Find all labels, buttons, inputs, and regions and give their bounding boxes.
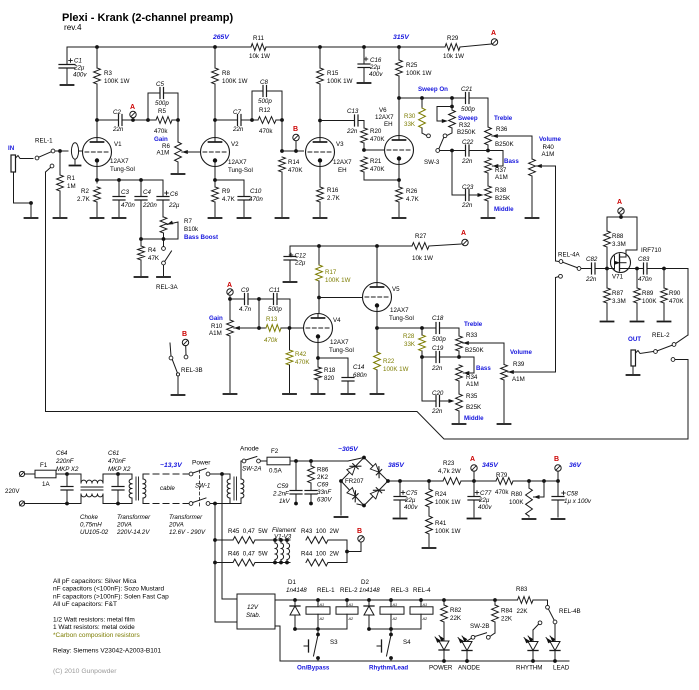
capacitor C22 22n [461, 139, 474, 165]
resistor R25 100K 1W [396, 47, 432, 136]
svg-text:V3: V3 [336, 141, 344, 148]
resistor R30 33K carbon [404, 98, 430, 138]
ground input jack [25, 217, 38, 219]
wire V4 cathode [316, 343, 348, 368]
svg-text:500p: 500p [268, 306, 282, 313]
svg-text:POWER: POWER [429, 665, 453, 672]
svg-text:100K: 100K [509, 499, 524, 506]
svg-text:22n: 22n [112, 126, 124, 133]
svg-text:0,75mH: 0,75mH [80, 522, 102, 529]
resistor R29 10k 1W [443, 35, 464, 60]
svg-text:R32: R32 [459, 122, 471, 129]
svg-text:3.3M: 3.3M [612, 241, 626, 248]
svg-text:22µ: 22µ [478, 497, 490, 504]
svg-text:680n: 680n [353, 372, 367, 379]
capacitor C61 470nF MKP X2 [108, 450, 131, 505]
wire output to REL-2 [664, 269, 688, 344]
mains choke [67, 474, 132, 536]
svg-text:220nF: 220nF [55, 458, 75, 465]
ground R39 [498, 423, 511, 425]
resistor R90 470K [661, 267, 685, 320]
svg-text:Middle: Middle [464, 415, 484, 422]
svg-text:10k 1W: 10k 1W [443, 53, 464, 60]
ground R4 [135, 276, 148, 278]
wire R8 to V2 plate [213, 84, 217, 141]
ground R90 [658, 321, 671, 323]
input cable shield [70, 143, 81, 166]
svg-text:V4: V4 [333, 317, 341, 324]
svg-text:470k: 470k [259, 128, 273, 135]
svg-text:C61: C61 [108, 450, 119, 457]
ground R2 [91, 217, 104, 219]
triode V3 [306, 138, 353, 175]
node A at end of rail [460, 30, 498, 47]
svg-text:470k: 470k [495, 489, 509, 496]
svg-text:R39: R39 [513, 361, 525, 368]
svg-text:C23: C23 [462, 184, 474, 191]
svg-text:22n: 22n [232, 126, 244, 133]
svg-text:R7: R7 [184, 218, 192, 225]
resistor R87 3.3M [604, 269, 626, 321]
svg-text:C5: C5 [156, 81, 164, 88]
ground REL-3B [172, 394, 185, 396]
svg-text:12AX7: 12AX7 [333, 159, 352, 166]
svg-text:R29: R29 [447, 35, 459, 42]
svg-text:IRF710: IRF710 [641, 247, 662, 254]
ground R22 [371, 393, 384, 395]
svg-text:470n: 470n [638, 276, 652, 283]
resistor R23 4.7k 2W [438, 460, 474, 484]
svg-text:R43 100 2W: R43 100 2W [301, 528, 339, 535]
cable dashed wires [143, 462, 191, 504]
svg-text:REL-4: REL-4 [413, 587, 431, 594]
svg-text:R38: R38 [495, 187, 507, 194]
potentiometer R32 B250K sweep [437, 98, 478, 138]
ground R26 [393, 217, 406, 219]
potentiometer R80 100K [509, 481, 544, 517]
svg-text:0.5A: 0.5A [269, 468, 283, 475]
diode D1 1n4148 [286, 579, 307, 629]
resistor R14 470K [279, 157, 304, 217]
wire V4 plate to V5 grid [319, 297, 363, 299]
switch SW-2B [467, 623, 490, 641]
svg-text:400v: 400v [73, 72, 87, 79]
ground R80 [523, 518, 536, 520]
svg-text:~305V: ~305V [338, 446, 359, 453]
svg-text:C9: C9 [241, 287, 249, 294]
relay switch REL-4B [538, 600, 581, 625]
svg-text:33nF: 33nF [317, 489, 332, 496]
svg-text:R2: R2 [81, 188, 89, 195]
svg-text:12AX7: 12AX7 [110, 158, 129, 165]
svg-text:C77: C77 [480, 490, 492, 497]
svg-text:1n4148: 1n4148 [286, 587, 307, 594]
svg-text:Sweep: Sweep [458, 115, 478, 122]
svg-text:A2: A2 [392, 617, 399, 621]
wire B+ rail 265V segment [67, 46, 445, 48]
wire DC+ rail 385V [388, 462, 443, 483]
svg-text:C19: C19 [432, 345, 444, 352]
relay coil REL-2 [336, 587, 358, 629]
svg-text:100K 1W: 100K 1W [104, 78, 130, 85]
svg-text:R41: R41 [435, 520, 447, 527]
wire REL-2 bypass contact [671, 358, 688, 439]
svg-text:4.7K: 4.7K [222, 196, 236, 203]
relay switch REL-2 [652, 332, 676, 353]
wire volume select vertical [556, 166, 560, 262]
LED LEAD [546, 624, 570, 672]
resistor R16 2.7K [317, 187, 341, 217]
wire relay group 2 return [367, 627, 421, 631]
svg-text:R1: R1 [67, 175, 75, 182]
node A ch2 rail [461, 230, 468, 246]
svg-text:C3: C3 [121, 189, 129, 196]
svg-text:SW-1: SW-1 [195, 483, 210, 490]
ground R6 [172, 173, 185, 175]
svg-text:R3: R3 [104, 70, 112, 77]
svg-text:12AX7: 12AX7 [390, 307, 409, 314]
resistor R4 47K [138, 239, 160, 276]
resistor R88 3.3M [604, 217, 626, 269]
svg-text:R89: R89 [642, 290, 654, 297]
svg-text:4,7k 2W: 4,7k 2W [438, 468, 461, 475]
svg-text:R28: R28 [403, 333, 415, 340]
svg-text:100K 1W: 100K 1W [435, 528, 461, 535]
svg-text:R34: R34 [466, 374, 478, 381]
svg-text:REL-3A: REL-3A [156, 284, 179, 291]
capacitor C77 22u 400v [468, 481, 492, 517]
wire R15 to V3 plate [318, 84, 322, 141]
node B REL-3B [182, 331, 189, 359]
wire x422 down to C20 row [421, 357, 423, 401]
resistor R86 2K2 snubber [308, 459, 329, 483]
wire C9 junction down [257, 299, 261, 330]
capacitor C11 500p [259, 287, 290, 328]
ground R1 [54, 217, 67, 219]
ground R42 [283, 393, 296, 395]
svg-text:220V-14.2V: 220V-14.2V [116, 529, 150, 536]
switch S3 channel [304, 629, 338, 661]
wire ch2 B+ rail [290, 244, 412, 248]
svg-text:47K: 47K [148, 255, 160, 262]
svg-text:Volume: Volume [539, 136, 561, 143]
relay switch REL-3B [169, 343, 203, 394]
resistor R82 22K [441, 600, 462, 640]
wire sweep rail [399, 96, 488, 100]
svg-text:V6: V6 [379, 107, 387, 114]
svg-text:V1: V1 [114, 141, 122, 148]
svg-text:R21: R21 [370, 158, 382, 165]
svg-text:Bass Boost: Bass Boost [184, 234, 218, 241]
svg-text:nF capacitors (<100nF): Sozo M: nF capacitors (<100nF): Sozo Mustard [53, 586, 164, 593]
triode V5 [363, 283, 414, 323]
svg-text:*Carbon composition resistors: *Carbon composition resistors [53, 632, 140, 639]
svg-text:EH: EH [384, 121, 393, 128]
svg-text:EH: EH [338, 167, 347, 174]
resistor R3 100K 1W [94, 47, 130, 85]
resistor R28 33K carbon [403, 328, 425, 357]
svg-text:R5: R5 [158, 108, 166, 115]
svg-text:R33: R33 [466, 332, 478, 339]
ground C10 [238, 217, 251, 219]
svg-text:C4: C4 [143, 189, 151, 196]
node A 345V [470, 456, 499, 483]
resistor R89 100K [634, 269, 658, 321]
potentiometer R36 B250K treble ch1 [485, 115, 532, 159]
svg-text:400v: 400v [478, 504, 492, 511]
wire ch2 tone rail [377, 326, 436, 330]
svg-text:4.7n: 4.7n [239, 306, 252, 313]
svg-text:20VA: 20VA [116, 522, 132, 529]
ground C16 [358, 82, 371, 84]
capacitor C7 22n [215, 109, 254, 133]
relay coil REL-3 [380, 587, 409, 629]
capacitor C3 470n [113, 180, 135, 217]
svg-text:R87: R87 [612, 290, 624, 297]
wire C19 row [420, 355, 461, 359]
svg-text:R14: R14 [288, 159, 300, 166]
resistor R11 10k 1W [249, 35, 270, 60]
svg-text:REL-3: REL-3 [391, 587, 409, 594]
ground R14 [276, 217, 289, 219]
triode V1 [83, 138, 135, 174]
fuse F1 1A [35, 462, 67, 488]
wire R12 to V3 grid [280, 120, 303, 153]
fuse F2 0.5A [260, 448, 348, 475]
resistor R21 470K [361, 157, 399, 180]
svg-text:500p: 500p [461, 106, 475, 113]
svg-text:R45 0,47 5W: R45 0,47 5W [228, 528, 268, 535]
svg-text:B250K: B250K [495, 141, 514, 148]
svg-text:630V: 630V [317, 497, 332, 504]
wire shield to V1 grid [79, 150, 83, 152]
wire V5 cathode [375, 312, 379, 331]
svg-text:100K 1W: 100K 1W [435, 499, 461, 506]
capacitor C12 22u [284, 246, 306, 281]
svg-text:12V: 12V [247, 604, 259, 611]
svg-text:C2: C2 [113, 109, 121, 116]
resistor R13 470k carbon [264, 316, 304, 344]
ground R41 [423, 547, 436, 549]
junction dots on B+ rail [95, 45, 401, 49]
ground R9 [209, 217, 222, 219]
svg-text:R84: R84 [501, 608, 513, 615]
svg-text:C10: C10 [250, 188, 262, 195]
wire gate junction [605, 267, 614, 271]
svg-text:F1: F1 [40, 462, 48, 469]
resistor R22 100K 1W carbon [374, 330, 409, 393]
resistor R43 100 2W [301, 528, 347, 543]
svg-text:B250K: B250K [457, 129, 476, 136]
svg-text:470k: 470k [264, 337, 278, 344]
svg-text:Relay: Siemens V23042-A2003-B1: Relay: Siemens V23042-A2003-B101 [53, 647, 161, 654]
svg-text:C69: C69 [317, 482, 329, 489]
svg-text:C21: C21 [461, 86, 472, 93]
wire mosfet supply tee [607, 216, 637, 218]
transformer T2 12.6V-290V [168, 474, 244, 536]
svg-text:2K2: 2K2 [317, 474, 329, 481]
svg-text:3.3M: 3.3M [612, 298, 626, 305]
ground R87 [601, 321, 614, 323]
svg-text:C64: C64 [56, 450, 68, 457]
resistor R15 100K 1W [317, 47, 353, 85]
svg-text:R40: R40 [543, 144, 555, 151]
svg-text:400v: 400v [369, 71, 383, 78]
svg-text:Volume: Volume [510, 349, 532, 356]
relay switch REL-1 [35, 138, 55, 168]
svg-text:22n: 22n [461, 202, 473, 209]
potentiometer R40 A1M volume ch1 [529, 136, 562, 217]
capacitor C2 22n [97, 109, 148, 133]
svg-text:Transformer: Transformer [169, 514, 203, 521]
svg-text:A1M: A1M [512, 376, 525, 383]
switch SW-2A anode [240, 446, 261, 475]
svg-text:nF capacitors (>100nF): Solen: nF capacitors (>100nF): Solen Fast Cap [53, 593, 169, 600]
svg-text:R20: R20 [370, 128, 382, 135]
svg-text:A: A [491, 30, 496, 37]
svg-text:C83: C83 [638, 256, 650, 263]
svg-text:C11: C11 [269, 287, 280, 294]
svg-text:33K: 33K [404, 341, 416, 348]
svg-text:C22: C22 [462, 139, 474, 146]
svg-text:B25K: B25K [495, 195, 511, 202]
capacitor C69 33nF 630V [305, 482, 332, 506]
svg-text:470nF: 470nF [108, 458, 127, 465]
wire relay group 1 return [293, 627, 347, 631]
ground C12 [284, 281, 297, 283]
svg-text:B25K: B25K [466, 404, 482, 411]
svg-text:C12: C12 [295, 253, 307, 260]
svg-text:R42: R42 [295, 351, 307, 358]
svg-text:A1: A1 [392, 603, 398, 607]
svg-text:22K: 22K [517, 608, 529, 615]
svg-text:500p: 500p [258, 98, 272, 105]
capacitor C64 220nF MKP X2 [55, 450, 79, 505]
LED RHYTHM [516, 624, 542, 671]
svg-text:Anode: Anode [240, 446, 259, 453]
svg-text:Plexi - Krank (2-channel pream: Plexi - Krank (2-channel preamp) [62, 12, 233, 24]
wire treble feed ch1 [469, 98, 488, 127]
switch SW-3 [424, 138, 452, 167]
svg-text:Sweep On: Sweep On [418, 86, 448, 93]
svg-text:22µ: 22µ [404, 497, 416, 504]
wire 14V leg B [215, 504, 237, 623]
capacitor C6 22u electrolytic [157, 180, 180, 217]
notes text block [53, 578, 169, 654]
svg-text:A1M: A1M [466, 381, 479, 388]
svg-text:C58: C58 [567, 491, 579, 498]
svg-text:1/2 Watt resistors: metal film: 1/2 Watt resistors: metal film [53, 617, 135, 624]
svg-text:22n: 22n [431, 408, 443, 415]
svg-text:500p: 500p [155, 100, 169, 107]
svg-text:10k 1W: 10k 1W [412, 255, 433, 262]
ground bridge negative [335, 481, 348, 517]
relay switch REL-4A [558, 252, 581, 271]
svg-text:22µ: 22µ [168, 202, 180, 209]
svg-text:C82: C82 [586, 256, 598, 263]
svg-text:R11: R11 [253, 35, 264, 42]
capacitor C23 22n [452, 184, 484, 209]
resistor R8 100K 1W [212, 47, 248, 85]
wire ch2 volume to REL-4A lower contact [556, 274, 563, 372]
capacitor C83 470n [634, 256, 664, 283]
wire filament join to B [345, 540, 361, 563]
potentiometer R7 B10k Bass Boost [160, 217, 218, 241]
resistor R18 820 [315, 367, 336, 393]
svg-text:R30: R30 [404, 113, 416, 120]
output jack OUT [628, 336, 654, 374]
ground C3 [113, 217, 126, 219]
svg-text:UU105-02: UU105-02 [80, 529, 109, 536]
resistor R79 470k [474, 472, 558, 496]
svg-text:C75: C75 [406, 490, 418, 497]
svg-text:A1: A1 [422, 603, 428, 607]
capacitor C19 22n [431, 345, 444, 372]
svg-text:R83: R83 [516, 586, 528, 593]
svg-text:345V: 345V [482, 462, 499, 469]
capacitor C75 22u 400v [394, 481, 418, 517]
svg-text:22n: 22n [461, 158, 473, 165]
svg-text:470n: 470n [249, 196, 263, 203]
svg-text:100K 1W: 100K 1W [406, 70, 432, 77]
svg-text:R44 100 2W: R44 100 2W [301, 551, 339, 558]
resistor R24 100K 1W [426, 481, 461, 516]
svg-text:385V: 385V [388, 462, 405, 469]
junction V1 grid [55, 149, 68, 153]
svg-text:820: 820 [324, 375, 335, 382]
resistor R20 470K [361, 121, 386, 151]
svg-text:22n: 22n [346, 128, 358, 135]
svg-text:SW-3: SW-3 [424, 159, 440, 166]
heater windings V1-V3 [272, 527, 296, 564]
svg-text:REL-3B: REL-3B [181, 367, 203, 374]
svg-text:REL-1: REL-1 [317, 587, 335, 594]
svg-text:V71: V71 [612, 274, 624, 281]
wire R3 to V1 plate [95, 84, 99, 141]
resistor R17 100K 1W carbon [316, 246, 351, 314]
svg-text:B: B [554, 456, 559, 463]
junction V6 grid [362, 148, 384, 152]
svg-text:R24: R24 [435, 491, 447, 498]
svg-text:265V: 265V [212, 34, 230, 41]
svg-text:1n4148: 1n4148 [359, 587, 380, 594]
svg-text:Power: Power [192, 460, 211, 467]
svg-text:1A: 1A [42, 481, 50, 488]
svg-text:B: B [357, 528, 362, 535]
capacitor C9 4.7n [230, 287, 261, 313]
svg-text:C7: C7 [233, 109, 241, 116]
svg-text:On/Bypass: On/Bypass [297, 665, 330, 672]
svg-text:C1: C1 [74, 58, 82, 65]
svg-text:Middle: Middle [494, 206, 514, 213]
svg-text:SW-2B: SW-2B [470, 623, 489, 630]
ground R35 [453, 423, 466, 425]
svg-text:R25: R25 [406, 62, 418, 69]
svg-text:LEAD: LEAD [553, 665, 570, 672]
label On/Bypass [297, 665, 330, 672]
svg-text:A: A [617, 199, 622, 206]
svg-text:1M: 1M [67, 183, 76, 190]
ground R18 [312, 393, 325, 395]
resistor R42 470K carbon [286, 328, 310, 393]
wire V1 cathode row [95, 167, 163, 184]
svg-text:R4: R4 [148, 247, 156, 254]
node 315V label [393, 34, 410, 41]
svg-text:Tung-Sol: Tung-Sol [228, 167, 253, 174]
potentiometer R35 B25K middle ch2 [456, 393, 485, 423]
wire bypass from REL-1 down left side [46, 168, 51, 412]
svg-text:22n: 22n [431, 365, 443, 372]
